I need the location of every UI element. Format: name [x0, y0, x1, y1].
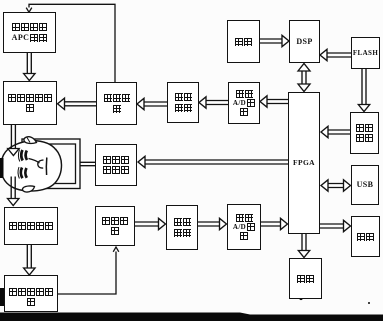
eye lower [18, 167, 27, 179]
arrow head to receiver probes [8, 177, 19, 206]
nose bridge line [29, 159, 40, 164]
ear top [24, 137, 37, 144]
arrow FPGA to AD1 [260, 96, 288, 107]
box receiver probe group [4, 207, 58, 245]
arrow AD1 to bandpass1 [199, 97, 228, 108]
head face outline [1, 141, 61, 192]
ear bottom [22, 186, 34, 192]
nose [38, 160, 44, 168]
box auditory stimulation module [95, 144, 137, 186]
box power supply [227, 20, 260, 63]
arrow APC to laser emitter [24, 53, 35, 81]
arrow download port to FPGA [321, 126, 350, 137]
scan speck 1 [299, 297, 302, 300]
box multiplexer switch 1 [96, 82, 137, 125]
box FLASH [351, 37, 380, 69]
arrow FPGA to display [320, 220, 351, 231]
box parallel AD converter 1 [228, 82, 260, 124]
box display [351, 216, 380, 257]
scan artifact bottom bar [0, 313, 383, 321]
box preamp processing circuit [4, 275, 58, 312]
box laser driver APC circuit [3, 12, 56, 53]
box DSP [289, 20, 320, 63]
head frame inner rect [27, 144, 76, 184]
box multiplexer switch 2 [95, 206, 135, 246]
box USB [351, 165, 379, 205]
box parallel AD converter 2 [227, 204, 261, 250]
arrow bandpass2 to AD2 [198, 218, 227, 229]
box bandpass filter 2 [166, 205, 198, 250]
box keyboard [289, 258, 322, 299]
scan speck 2 [368, 302, 370, 304]
arrow switch1 to laser emitter [58, 98, 97, 109]
box bandpass filter 1 [167, 82, 199, 123]
wire head frame to auditory module [80, 162, 95, 165]
box download interface [350, 112, 379, 154]
wire preamp to switch2 [58, 247, 119, 294]
arrow FLASH to download port [358, 69, 369, 112]
scan artifact left streak 1 [0, 158, 4, 178]
head frame outer rect [22, 139, 80, 189]
arrow switch2 to bandpass2 [135, 218, 166, 229]
wire feedback from switch1 top to laser APC box [26, 4, 115, 82]
box multi-channel laser emitter [3, 81, 57, 125]
arrow DSP to FPGA bidirectional [298, 64, 310, 92]
box FPGA [288, 92, 320, 234]
mouth [45, 158, 47, 176]
arrow receiver probes to preamp [24, 245, 35, 275]
arrow bandpass1 to switch1 [137, 98, 167, 109]
arrow FPGA to USB bidirectional [321, 180, 351, 191]
arrow FLASH to DSP [320, 49, 351, 60]
arrow laser emitter to head [8, 125, 19, 156]
arrow FPGA to keyboard [298, 234, 309, 258]
eye upper [18, 150, 27, 162]
arrow power to DSP [260, 35, 289, 46]
scan artifact left streak 2 [0, 288, 5, 306]
arrow AD2 to FPGA [261, 218, 288, 229]
arrow FPGA to auditory module [138, 156, 288, 167]
